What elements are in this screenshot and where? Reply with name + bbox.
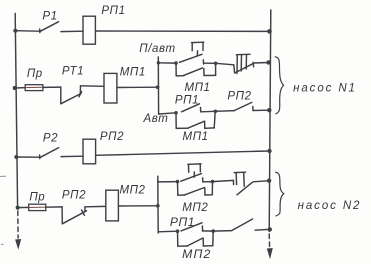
svg-text:Авт: Авт (143, 113, 169, 125)
svg-text:МП2: МП2 (119, 185, 145, 197)
svg-text:П/авт: П/авт (139, 43, 175, 55)
svg-text:МП1: МП1 (184, 82, 210, 94)
svg-text:РП2: РП2 (100, 131, 124, 143)
svg-text:Пр: Пр (29, 192, 45, 204)
svg-text:насос N1: насос N1 (293, 83, 357, 95)
svg-text:РП1: РП1 (170, 215, 195, 229)
svg-text:РП1: РП1 (101, 5, 125, 17)
svg-text:РП1: РП1 (175, 95, 199, 107)
svg-text:Пр: Пр (27, 68, 43, 80)
svg-text:МП1: МП1 (120, 67, 146, 79)
svg-text:РП2: РП2 (62, 189, 86, 201)
svg-text:Р2: Р2 (43, 133, 58, 145)
svg-text:РП2: РП2 (227, 91, 251, 103)
svg-text:Р1: Р1 (42, 11, 57, 23)
svg-text:РТ1: РТ1 (62, 66, 84, 78)
svg-text:МП2: МП2 (182, 247, 211, 261)
svg-text:насос N2: насос N2 (298, 200, 362, 212)
svg-text:МП2: МП2 (182, 202, 208, 214)
svg-text:МП1: МП1 (183, 131, 209, 143)
